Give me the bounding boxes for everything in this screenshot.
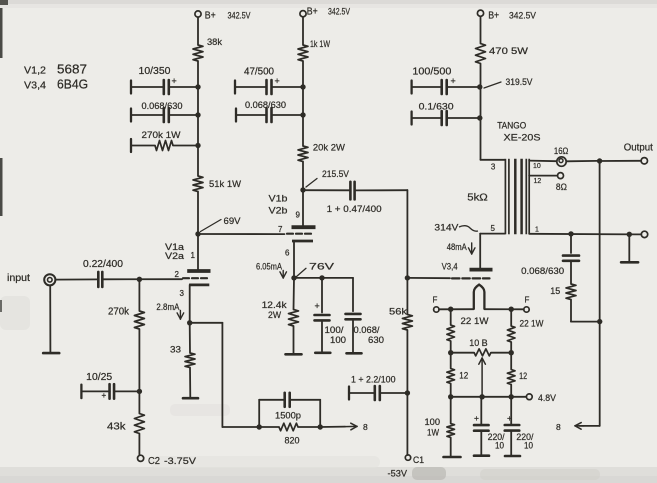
svg-text:342.5V: 342.5V [509, 11, 537, 22]
svg-text:270k 1W: 270k 1W [142, 130, 181, 140]
svg-text:314V: 314V [434, 223, 459, 234]
svg-text:820: 820 [285, 436, 300, 446]
svg-text:51k 1W: 51k 1W [209, 179, 241, 190]
svg-text:100/500: 100/500 [412, 67, 451, 78]
svg-text:12: 12 [534, 178, 542, 185]
svg-text:0.1/630: 0.1/630 [419, 102, 454, 113]
svg-text:6.05mA: 6.05mA [256, 262, 283, 272]
svg-text:V2b: V2b [269, 206, 288, 217]
svg-text:5kΩ: 5kΩ [467, 192, 488, 204]
svg-text:7: 7 [278, 225, 283, 234]
svg-text:10/25: 10/25 [86, 372, 112, 383]
svg-text:76V: 76V [309, 261, 335, 272]
svg-text:3: 3 [491, 163, 496, 172]
svg-text:V3,4: V3,4 [24, 80, 46, 92]
svg-text:V3,4: V3,4 [442, 261, 458, 272]
svg-text:1k 1W: 1k 1W [310, 39, 330, 49]
svg-text:+: + [172, 76, 177, 86]
svg-text:0.068/630: 0.068/630 [245, 100, 286, 110]
svg-text:F: F [525, 295, 530, 304]
svg-text:+: + [275, 76, 280, 86]
svg-text:20k 2W: 20k 2W [313, 142, 345, 153]
svg-text:100: 100 [330, 335, 346, 345]
svg-text:+: + [507, 413, 512, 423]
svg-text:33: 33 [170, 344, 181, 355]
svg-text:6: 6 [285, 249, 290, 258]
svg-text:+: + [474, 413, 479, 423]
svg-text:12: 12 [519, 371, 527, 381]
svg-text:+: + [315, 301, 320, 311]
svg-text:6B4G: 6B4G [57, 78, 88, 92]
svg-text:56k: 56k [389, 307, 407, 318]
svg-text:69V: 69V [224, 216, 242, 227]
svg-text:C2: C2 [148, 456, 160, 467]
svg-text:B+: B+ [488, 11, 499, 22]
svg-text:10: 10 [495, 441, 504, 451]
svg-text:22 1W: 22 1W [520, 318, 544, 328]
svg-text:43k: 43k [107, 422, 127, 433]
svg-text:C1: C1 [413, 454, 424, 465]
svg-text:1W: 1W [427, 428, 439, 438]
svg-text:2W: 2W [268, 310, 281, 320]
svg-text:1 + 0.47/400: 1 + 0.47/400 [327, 203, 382, 214]
svg-text:10: 10 [533, 163, 541, 170]
svg-text:8Ω: 8Ω [556, 181, 567, 192]
svg-text:0.068/: 0.068/ [354, 325, 381, 335]
svg-text:0.068/630: 0.068/630 [142, 101, 183, 111]
svg-text:0.068/630: 0.068/630 [521, 266, 564, 276]
svg-text:Output: Output [624, 143, 653, 154]
svg-text:V2a: V2a [165, 251, 185, 262]
svg-text:B+: B+ [307, 7, 318, 18]
svg-text:319.5V: 319.5V [506, 77, 534, 88]
svg-text:-3.75V: -3.75V [164, 456, 197, 467]
svg-text:1 + 2.2/100: 1 + 2.2/100 [351, 375, 396, 385]
svg-text:8: 8 [556, 422, 561, 432]
svg-text:TANGO: TANGO [497, 120, 526, 131]
svg-text:270k: 270k [108, 307, 130, 318]
svg-text:9: 9 [296, 211, 301, 220]
svg-text:-53V: -53V [388, 469, 408, 480]
svg-text:V1,2: V1,2 [24, 65, 46, 77]
svg-text:+: + [102, 391, 107, 400]
svg-text:10/350: 10/350 [139, 66, 171, 77]
svg-text:input: input [7, 273, 30, 284]
svg-text:2.8mA: 2.8mA [156, 302, 180, 312]
svg-text:10: 10 [524, 441, 533, 451]
svg-text:B+: B+ [205, 10, 216, 21]
svg-text:1: 1 [191, 251, 196, 260]
svg-text:12: 12 [459, 370, 468, 380]
svg-text:342.5V: 342.5V [228, 10, 251, 21]
svg-text:10 B: 10 B [469, 338, 488, 348]
svg-text:48mA: 48mA [447, 242, 468, 252]
svg-text:V1b: V1b [269, 194, 288, 205]
svg-text:12.4k: 12.4k [262, 300, 287, 310]
svg-text:F: F [433, 296, 438, 305]
svg-text:22 1W: 22 1W [461, 316, 490, 326]
svg-text:1: 1 [535, 227, 539, 234]
svg-text:5: 5 [491, 224, 496, 233]
svg-text:47/500: 47/500 [244, 66, 274, 77]
svg-text:XE-20S: XE-20S [504, 133, 541, 144]
svg-text:38k: 38k [207, 37, 222, 48]
svg-text:100: 100 [425, 417, 441, 427]
svg-text:5687: 5687 [57, 63, 87, 77]
svg-text:15: 15 [550, 286, 560, 296]
svg-text:8: 8 [363, 422, 368, 432]
svg-text:3: 3 [180, 289, 185, 298]
svg-text:100/: 100/ [325, 325, 345, 335]
svg-text:630: 630 [368, 335, 384, 345]
svg-text:470 5W: 470 5W [489, 46, 528, 57]
svg-text:16Ω: 16Ω [554, 146, 569, 156]
svg-text:4.8V: 4.8V [538, 393, 557, 404]
svg-text:1500p: 1500p [275, 411, 301, 422]
svg-text:215.5V: 215.5V [322, 169, 350, 180]
svg-text:342.5V: 342.5V [328, 7, 350, 18]
svg-text:2: 2 [175, 270, 180, 279]
svg-text:+: + [451, 76, 456, 86]
svg-text:0.22/400: 0.22/400 [83, 259, 123, 270]
